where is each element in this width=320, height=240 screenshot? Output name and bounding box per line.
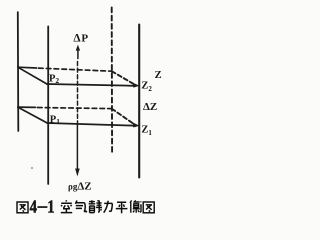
svg-text:Z1: Z1 [141, 125, 152, 138]
svg-text:ΔP: ΔP [73, 33, 88, 45]
wire box back-bottom edge solid part [18, 106, 36, 108]
ink speck [31, 167, 33, 169]
wire box front-top edge (level Z2) [47, 84, 136, 86]
wire box bottom-right dashed diagonal [112, 109, 133, 124]
svg-text:P1: P1 [50, 115, 60, 127]
wire left column front edge V2 [47, 26, 49, 184]
caption glyph tu2 (second) [143, 202, 154, 213]
wire box back-bottom edge dashed part [38, 108, 112, 109]
arrowhead dP up [76, 45, 80, 51]
caption figure number: glyph tu2 [17, 202, 28, 213]
wire left column back edge V1 [17, 12, 20, 131]
caption glyph qi4 [75, 201, 86, 213]
wire right column front edge / Z axis V4 [138, 25, 140, 178]
arrowhead rho-g-dZ down [75, 169, 80, 177]
wire center dashed axis through parcel [77, 62, 79, 124]
wire box back-top edge dashed part [39, 68, 112, 71]
arrowhead at Z2 [133, 83, 140, 88]
caption glyph li4 [104, 201, 113, 213]
caption glyph ping2 [116, 202, 128, 213]
wire box bottom-left diagonal [18, 107, 47, 123]
arrow dP up shaft [77, 48, 79, 59]
caption glyph jing4 [89, 200, 102, 213]
caption glyph heng2 [130, 200, 142, 213]
svg-text:4: 4 [30, 199, 37, 217]
svg-text:Z2: Z2 [141, 80, 152, 93]
svg-text:Z: Z [155, 70, 162, 81]
wire box back-top edge solid part [18, 66, 37, 69]
wire box front-bottom edge (level Z1) [47, 123, 136, 126]
wire box top-right dashed diagonal [112, 71, 133, 83]
wire right column back edge V3 (dashed) [111, 8, 113, 155]
svg-text:1: 1 [47, 199, 54, 217]
caption em dash [37, 206, 47, 208]
svg-text:ΔZ: ΔZ [143, 101, 157, 113]
wire box top-left diagonal [18, 67, 47, 84]
arrow rho-g-dZ down shaft [76, 125, 78, 171]
arrowhead at Z1 [133, 122, 140, 127]
svg-text:ρgΔZ: ρgΔZ [68, 181, 92, 193]
caption glyph kong1 [61, 200, 72, 212]
svg-text:P2: P2 [49, 74, 59, 86]
